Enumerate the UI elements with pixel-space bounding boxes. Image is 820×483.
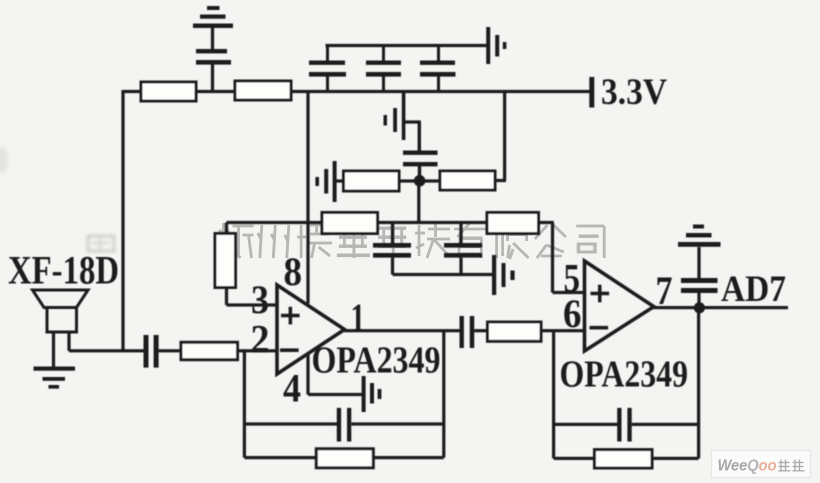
svg-text:8: 8: [284, 249, 303, 294]
svg-text:XF-18D: XF-18D: [8, 248, 119, 293]
svg-text:OPA2349: OPA2349: [560, 354, 689, 396]
svg-text:6: 6: [563, 291, 582, 336]
svg-text:2: 2: [251, 317, 270, 362]
svg-text:AD7: AD7: [721, 269, 786, 310]
svg-text:OPA2349: OPA2349: [312, 340, 441, 382]
svg-text:3.3V: 3.3V: [601, 72, 667, 113]
svg-text:7: 7: [656, 268, 673, 313]
svg-text:WeeQoo: WeeQoo: [718, 458, 777, 475]
svg-text:3: 3: [251, 277, 269, 322]
svg-text:4: 4: [283, 366, 301, 411]
svg-text:1: 1: [351, 295, 366, 340]
